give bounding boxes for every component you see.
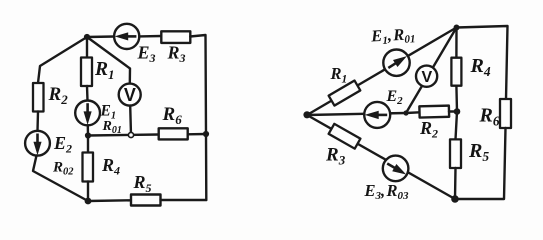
svg-text:V: V xyxy=(421,69,432,86)
svg-text:V: V xyxy=(124,85,136,105)
